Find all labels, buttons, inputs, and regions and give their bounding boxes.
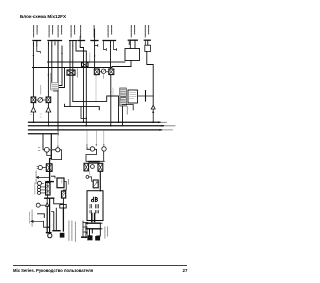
wire trunk 34b — [72, 46, 74, 101]
arrowhead to fx — [151, 105, 155, 109]
wire collector h2 — [33, 67, 113, 69]
x mon R — [99, 164, 102, 170]
wire box-amp ch2 — [47, 103, 49, 107]
wire 34 mid jog — [59, 46, 62, 86]
pot ticks — [38, 147, 40, 150]
arrowhead ch1 — [33, 122, 35, 124]
monitor pot 2 — [102, 147, 106, 151]
dsp out wire — [138, 95, 154, 97]
wire 56 vert b — [85, 51, 87, 126]
connector J2 mic2 — [48, 41, 56, 47]
input label LINE 1 — [58, 26, 62, 38]
bal pot 56 box R — [109, 69, 114, 75]
wire trunk ch2 — [48, 42, 51, 97]
wire amp-bus ch2 — [47, 112, 49, 126]
bus ctrl — [29, 133, 59, 135]
input label MIC 1 — [34, 26, 38, 38]
wire amp-bus ch1 — [32, 112, 34, 122]
meter box — [87, 191, 103, 221]
amp ch2 — [46, 107, 51, 112]
x 56R — [110, 70, 114, 74]
wire 56 boxes b — [106, 71, 109, 73]
corner wire left strip — [54, 208, 57, 230]
dsp main box — [128, 90, 138, 103]
block tape box — [125, 49, 140, 61]
pot aux2 — [38, 181, 42, 185]
connector J6 stereo78 — [91, 29, 98, 69]
gain pot 56 — [101, 69, 105, 73]
pot level — [38, 166, 42, 170]
wire fader drop — [64, 182, 67, 192]
bus label ctrl — [162, 129, 173, 131]
pan pot ch1 box — [31, 97, 36, 103]
main LR pair down — [47, 198, 49, 233]
wire mm stair — [47, 150, 62, 160]
input label 2TK — [108, 26, 112, 38]
wire 78 dashed — [89, 53, 91, 63]
meter bars — [92, 214, 95, 222]
x pan ch2 — [47, 98, 50, 102]
out drops — [90, 229, 93, 236]
wire line12 branch — [54, 90, 59, 92]
main out connector circle — [46, 232, 51, 234]
wire phones — [40, 204, 45, 206]
bus aux — [29, 121, 161, 123]
x in insert 34 — [82, 63, 87, 67]
bus main R — [29, 129, 162, 131]
rca wires — [41, 187, 46, 193]
main mono drop — [62, 208, 64, 231]
gain pot ch12 — [38, 98, 43, 103]
x mon L — [85, 164, 88, 170]
labels bottom left — [67, 180, 70, 242]
tick labels aux — [35, 171, 37, 184]
bar under mute — [46, 181, 53, 183]
pan pot ch2 box — [46, 97, 51, 103]
xlr out small — [60, 233, 65, 238]
dsp foot label — [121, 97, 128, 115]
block tape sel — [46, 183, 50, 196]
wire 2track down — [110, 46, 112, 69]
wire route h101 — [73, 96, 119, 122]
small circle sw — [86, 176, 89, 179]
bus main L — [29, 125, 164, 127]
arrow 56L — [95, 74, 96, 76]
connector J5 stereo56 — [78, 37, 85, 47]
dsp in wire — [112, 88, 114, 95]
block sw — [93, 180, 98, 188]
wire pan1-pot — [36, 99, 38, 101]
labels out right — [104, 227, 106, 238]
bus label main — [164, 125, 175, 127]
wire drop d3 — [57, 131, 59, 147]
wire mon R down — [99, 171, 101, 191]
pot arrow — [38, 98, 42, 102]
dsp lower wires — [122, 106, 124, 126]
x pan ch1 — [32, 98, 35, 102]
block main amp tall — [57, 178, 64, 188]
wire box-amp ch1 — [32, 103, 34, 107]
wire mm thick — [50, 150, 52, 183]
mon box L — [84, 163, 89, 171]
wire mainamp bottom — [45, 197, 54, 199]
tick right — [52, 211, 54, 213]
wire route h107 — [65, 104, 100, 110]
svg-text:Mix Series. Руководство пользо: Mix Series. Руководство пользователя — [13, 268, 94, 273]
wire collector h2b — [112, 66, 131, 68]
wire trunk line12 — [57, 46, 59, 135]
arrowhead ch2 — [48, 125, 50, 127]
monitor pot 1 — [90, 147, 94, 151]
dashed ref ch12 — [40, 86, 42, 95]
junction 86 — [86, 118, 87, 119]
phantom text lines — [52, 85, 58, 89]
amp ch1 — [31, 107, 36, 112]
mon pot mid — [91, 165, 95, 169]
wire route h118 — [81, 107, 86, 119]
wire fader out — [54, 198, 64, 208]
sw wire — [89, 177, 93, 181]
wire trunk 34a — [69, 46, 71, 107]
input label FOOTSW — [145, 26, 148, 38]
connector J4 stereo34 jacks — [70, 41, 77, 47]
meter led col2 — [96, 205, 99, 214]
dsp gray block a — [120, 88, 127, 97]
junction dots buses — [57, 122, 154, 127]
block phantom 48V — [51, 83, 59, 91]
wire 78 arrow line — [94, 55, 95, 56]
meter led col1 — [90, 205, 92, 214]
x mute — [47, 165, 51, 170]
gray drop r2 — [95, 131, 97, 146]
wire 2track h1 — [111, 61, 126, 63]
wire collector h1 left — [48, 61, 111, 63]
phones amp — [46, 203, 49, 207]
block insert 34 — [82, 62, 89, 67]
wire 56R to bus — [110, 92, 112, 126]
connector J9 aux ret — [128, 40, 137, 44]
svg-text:Блок-схема Mix12FX: Блок-схема Mix12FX — [20, 14, 67, 19]
input label AUX RET — [131, 26, 134, 38]
junction phones — [48, 226, 50, 228]
connector J3 line12 — [55, 41, 62, 47]
arrow aux send — [36, 176, 49, 178]
wire trunk 56a — [80, 46, 83, 48]
bal pot 56 box L — [94, 69, 99, 75]
wire footsw step — [147, 52, 153, 106]
connector J10 footswitch — [144, 40, 150, 45]
box footsw — [145, 45, 151, 51]
input label 7-8 — [93, 26, 95, 38]
connector J7 2track — [103, 41, 116, 47]
input label MIC 2 — [49, 26, 53, 38]
monitor box top — [89, 162, 99, 164]
dsp gray block b — [120, 98, 127, 107]
label phantom — [50, 74, 52, 85]
connector J1 mic1 — [33, 41, 41, 47]
wire phones down — [44, 221, 49, 227]
wire drop d2 — [50, 134, 52, 149]
wire 56L down gray — [95, 75, 97, 101]
labels ctrl room — [87, 228, 89, 240]
wire mm1 — [43, 148, 44, 150]
gray drop r3 — [103, 131, 105, 146]
wire phones route — [38, 214, 45, 218]
bus label aux — [161, 121, 167, 123]
label 2 — [102, 75, 104, 79]
x in insert ch12 — [68, 71, 74, 75]
rca jacks tape — [37, 185, 40, 194]
out bus double — [86, 223, 100, 229]
block fader — [62, 191, 66, 198]
x 56L — [95, 70, 99, 74]
block insert ch12 — [67, 70, 75, 75]
out bracket — [97, 223, 102, 236]
monitor stair wires — [86, 147, 104, 161]
block mute — [46, 164, 52, 172]
svg-text:27: 27 — [183, 268, 188, 273]
label phones col — [31, 210, 33, 226]
wire pot-mute — [42, 167, 46, 169]
wire 56 boxes — [99, 71, 101, 73]
xlr main blob — [88, 235, 93, 240]
wire into tape box b — [134, 40, 136, 48]
ctrl room bracket — [83, 221, 88, 237]
arrow phones out — [31, 220, 44, 222]
meter dB text — [91, 197, 97, 201]
pot 56 arrow — [102, 69, 106, 73]
wire 56R down — [110, 75, 112, 92]
pot aux master — [56, 148, 60, 152]
input label LINE 3/4 — [71, 26, 75, 38]
wire into tape box a — [129, 40, 131, 48]
pot level ticks — [36, 166, 39, 169]
wire 56 vert a — [83, 48, 85, 123]
label near insert — [76, 69, 78, 77]
pot main mix — [44, 147, 49, 152]
block out sel — [60, 205, 66, 209]
wire trunk ch1 — [32, 42, 34, 97]
dsp box text — [130, 93, 137, 99]
input label 5-6 — [80, 26, 82, 38]
sw arrow — [94, 182, 97, 186]
mon box R — [98, 163, 103, 171]
wire pot-pan2 — [43, 99, 47, 101]
footer rule — [13, 265, 187, 267]
phones circle — [36, 203, 40, 207]
dsp text marks — [121, 90, 126, 105]
wire drop d1 — [42, 134, 44, 148]
wire tape out — [130, 61, 132, 67]
footer bar small — [53, 230, 60, 232]
fader hatch — [62, 192, 65, 197]
wire mm2 — [49, 149, 51, 151]
gray drop r1 — [86, 131, 88, 147]
